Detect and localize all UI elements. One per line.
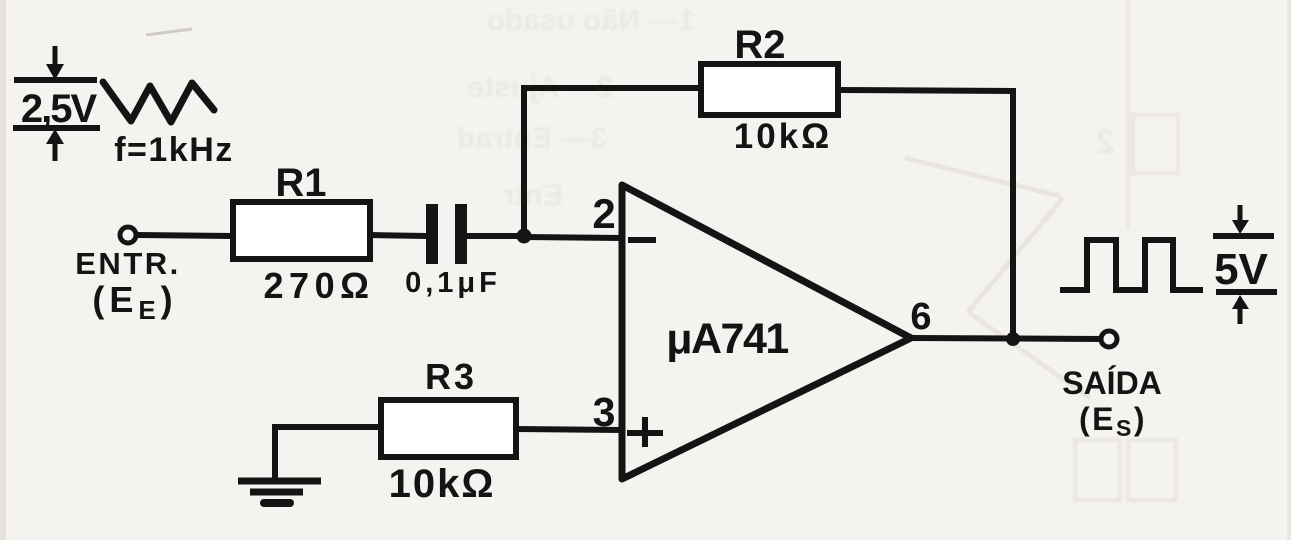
resistor R3 xyxy=(381,400,516,457)
dimension arrow up (5V marker) xyxy=(1232,295,1249,324)
svg-text:(EE): (EE) xyxy=(92,279,177,325)
wire node A to pin 2 xyxy=(524,237,622,238)
ground riser wire xyxy=(272,424,278,481)
dimension arrow down (5V marker) xyxy=(1232,205,1249,234)
ghost bleed-through text (mirrored) xyxy=(0,0,1,1)
wire capacitor to node A xyxy=(467,233,524,239)
svg-text:3— Entrad: 3— Entrad xyxy=(457,122,607,155)
ghost faint rectangles right side xyxy=(1075,0,1178,500)
wire to R2 left (horizontal) xyxy=(521,85,701,91)
svg-text:270Ω: 270Ω xyxy=(264,265,375,306)
triangle wave symbol xyxy=(103,82,214,122)
svg-text:6: 6 xyxy=(910,296,931,338)
svg-text:μA741: μA741 xyxy=(666,315,788,363)
wire feedback vertical to output node xyxy=(1010,88,1016,339)
svg-text:2,5V: 2,5V xyxy=(21,87,98,131)
node B output junction dot xyxy=(1006,332,1020,346)
dimension arrow down (2,5V marker) xyxy=(46,46,64,80)
svg-text:1— Não usado: 1— Não usado xyxy=(487,4,695,37)
svg-text:(ES): (ES) xyxy=(1079,401,1147,441)
resistor R2 xyxy=(701,64,838,115)
svg-text:f=1kHz: f=1kHz xyxy=(114,131,234,169)
svg-text:5V: 5V xyxy=(1214,245,1268,294)
wire input to R1 xyxy=(137,235,233,236)
svg-text:R2: R2 xyxy=(734,23,785,67)
svg-text:2: 2 xyxy=(592,190,615,237)
capacitor C1 plates xyxy=(426,204,467,264)
svg-text:SAÍDA: SAÍDA xyxy=(1062,365,1162,401)
svg-text:0,1μF: 0,1μF xyxy=(405,267,501,299)
input terminal circle xyxy=(120,227,136,243)
wire R2 to feedback corner xyxy=(838,90,1016,91)
ghost op-amp diagonals xyxy=(905,158,1090,398)
svg-text:R1: R1 xyxy=(275,161,326,205)
output terminal circle xyxy=(1101,331,1117,347)
resistor R1 xyxy=(233,202,370,259)
minus sign (inverting input) xyxy=(628,237,656,243)
svg-text:ENTR.: ENTR. xyxy=(75,246,181,281)
svg-text:10kΩ: 10kΩ xyxy=(389,462,496,506)
dimension arrow up (2,5V marker) xyxy=(46,129,64,161)
plus sign (non-inverting input) xyxy=(627,417,663,447)
square wave symbol xyxy=(1060,240,1203,290)
faint scan artifact top-left xyxy=(146,29,192,35)
op-amp U1 triangle xyxy=(622,185,911,479)
wire op-amp output to terminal xyxy=(911,338,1101,339)
wire ground to R3 xyxy=(275,424,381,430)
wire R3 to pin 3 xyxy=(516,429,622,430)
dimension bottom line (5V) xyxy=(1216,289,1277,295)
wire node A up to R2 (vertical) xyxy=(521,88,527,236)
dimension top line (5V) xyxy=(1213,233,1274,239)
dimension top line (2,5V) xyxy=(14,77,97,83)
ground symbol xyxy=(238,481,321,503)
wire R1 to capacitor xyxy=(370,235,427,236)
dimension bottom line (2,5V) xyxy=(13,125,100,131)
svg-text:10kΩ: 10kΩ xyxy=(734,117,832,156)
node A junction dot xyxy=(517,229,532,244)
svg-text:R3: R3 xyxy=(425,356,477,397)
svg-text:2: 2 xyxy=(1096,123,1115,161)
svg-text:Entr: Entr xyxy=(503,179,563,212)
